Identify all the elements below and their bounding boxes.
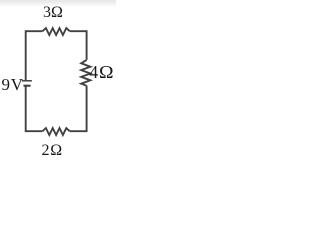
resistor R3 2Ω (bottom) xyxy=(43,128,70,135)
wire top-right segment xyxy=(70,31,87,60)
wire bottom-right segment xyxy=(70,86,87,132)
battery V1 9V positive plate (long) xyxy=(22,80,32,82)
resistor R1 3Ω (top) xyxy=(43,28,70,35)
battery V1 9V negative plate (short thick) xyxy=(24,85,31,87)
wire top-left segment xyxy=(26,31,43,80)
label 3Ω for resistor R1 xyxy=(43,5,63,21)
label 9V for battery V1 xyxy=(2,76,24,93)
resistor R2 4Ω (right) xyxy=(81,60,90,86)
wire bottom-left segment xyxy=(26,86,43,131)
label 4Ω for resistor R2 xyxy=(89,64,112,82)
label 2Ω for resistor R3 xyxy=(42,143,63,159)
